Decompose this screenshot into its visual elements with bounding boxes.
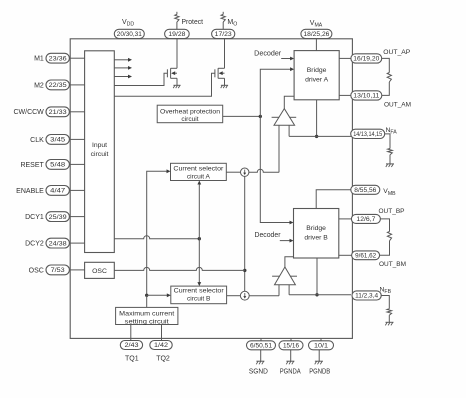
- wire decay net to current selector B: [198, 239, 200, 285]
- current selector circuit B block: [171, 286, 227, 304]
- wire PGNDB pin stub: [320, 338, 322, 340]
- junction NFB node: [315, 293, 318, 296]
- svg-text:8/55,56: 8/55,56: [354, 187, 377, 194]
- svg-text:21/33: 21/33: [49, 109, 68, 116]
- svg-text:DCY1: DCY1: [25, 214, 44, 221]
- svg-text:OSC: OSC: [29, 267, 44, 274]
- svg-text:CLK: CLK: [30, 137, 44, 144]
- wire comparator B feedback input from NFB net: [288, 285, 290, 295]
- svg-text:2/43: 2/43: [125, 342, 140, 349]
- ground PGNDA: [286, 361, 294, 364]
- wire bridge driver B to NFB node: [316, 258, 318, 295]
- decoder A arrow into bridge driver A: [281, 58, 290, 60]
- motor coil load between OUT_BP and OUT_BM: [380, 219, 392, 255]
- pin M1 (23/36): [46, 53, 69, 63]
- svg-text:driver B: driver B: [304, 234, 328, 241]
- svg-text:OUT_BP: OUT_BP: [379, 208, 405, 215]
- wire decay net to current selector A: [198, 183, 200, 239]
- svg-text:setting circuit: setting circuit: [125, 318, 169, 325]
- svg-text:SGND: SGND: [249, 368, 268, 375]
- wire OSC block output with crossovers: [114, 267, 245, 270]
- wire PGNDA pin stub: [290, 338, 292, 340]
- current selector circuit A block: [171, 163, 227, 180]
- svg-text:Current selector: Current selector: [173, 166, 224, 173]
- wire OSC pin to input circuit: [69, 269, 84, 271]
- svg-text:RESET: RESET: [20, 162, 44, 169]
- input circuit block: [85, 51, 115, 253]
- svg-text:Maximum current: Maximum current: [119, 310, 174, 317]
- svg-text:PGNDB: PGNDB: [309, 368, 330, 375]
- pin VMB (8/55,56): [351, 185, 380, 194]
- wire M1 pin to input circuit: [69, 57, 84, 59]
- svg-text:7/53: 7/53: [51, 267, 66, 274]
- svg-text:17/23: 17/23: [215, 31, 233, 38]
- svg-text:M2: M2: [34, 82, 44, 89]
- wire protect net to bridge driver B: [260, 116, 290, 222]
- wire M2 pin to input circuit: [69, 84, 84, 86]
- resistor RNFB on NFB pin: [381, 296, 391, 323]
- svg-text:OUT_AM: OUT_AM: [384, 101, 411, 108]
- svg-text:circuit: circuit: [91, 151, 109, 158]
- wire VMA pin to bridge driver A: [315, 39, 317, 51]
- junction torque net: [145, 294, 148, 297]
- svg-text:CW/CCW: CW/CCW: [13, 109, 44, 116]
- svg-text:16/19,20: 16/19,20: [353, 56, 380, 63]
- pin TQ1 (2/43): [120, 341, 142, 350]
- wire bridge driver A to OUT_AM: [339, 94, 352, 96]
- input circuit output arrows: [114, 58, 132, 79]
- pin OSC (7/53): [46, 265, 69, 275]
- wire gate of Q1 from input circuit: [114, 73, 167, 85]
- svg-text:22/35: 22/35: [49, 82, 68, 89]
- svg-text:DCY2: DCY2: [25, 241, 44, 248]
- pin VMA (18/25,26): [301, 29, 332, 38]
- svg-text:TQ2: TQ2: [156, 356, 170, 363]
- svg-text:driver A: driver A: [305, 77, 329, 84]
- svg-text:24/38: 24/38: [49, 240, 68, 247]
- wire gate of Q2 from input circuit: [114, 73, 215, 96]
- svg-text:Bridge: Bridge: [307, 67, 327, 74]
- resistor RNFA on NFA pin: [385, 134, 393, 164]
- wire torque net to current selector B: [147, 294, 168, 296]
- svg-text:20/30,31: 20/30,31: [117, 31, 143, 38]
- wire comparator B output to bridge driver B: [285, 257, 294, 267]
- svg-text:11/2,3,4: 11/2,3,4: [355, 293, 379, 300]
- bridge driver A block: [294, 51, 339, 100]
- svg-text:10/1: 10/1: [314, 343, 329, 350]
- svg-text:23/36: 23/36: [49, 55, 68, 62]
- ground SGND: [256, 361, 264, 364]
- pin NFA (14/13,14,15): [351, 129, 385, 138]
- svg-text:Overheat protection: Overheat protection: [160, 109, 220, 116]
- pin OUT_AP (16/19,20): [351, 54, 382, 63]
- pin DCY2 (24/38): [46, 238, 69, 248]
- svg-text:Bridge: Bridge: [306, 225, 326, 232]
- ground for Q1 source: [173, 85, 180, 88]
- pin CW/CCW (21/33): [46, 107, 69, 117]
- svg-text:9/61,62: 9/61,62: [355, 253, 377, 260]
- pin TQ2 (1/42): [150, 341, 172, 350]
- svg-text:15/16: 15/16: [283, 343, 300, 350]
- svg-text:circuit A: circuit A: [187, 173, 211, 180]
- wire DCY1 pin to input circuit: [69, 216, 84, 218]
- pin NFB (11/2,3,4): [352, 291, 381, 300]
- transistor Q1: [167, 39, 177, 85]
- wire bridge driver B to OUT_BM: [339, 254, 353, 256]
- pin SGND (6/50,51): [247, 341, 276, 350]
- motor coil load between OUT_AP and OUT_AM: [382, 58, 392, 95]
- pin CLK (3/45): [46, 135, 69, 145]
- wire comparator A output to bridge driver A: [284, 96, 294, 109]
- wire protect net to bridge driver A: [260, 69, 290, 116]
- wire maximum current setting circuit to torque net: [146, 295, 148, 307]
- svg-text:OUT_AP: OUT_AP: [383, 49, 410, 56]
- wire NFB net to NFB pin: [289, 294, 351, 296]
- wire current selector A to summing node A: [226, 171, 240, 173]
- pin OUT_BP (12/6,7): [351, 214, 380, 223]
- svg-text:Current selector: Current selector: [174, 288, 225, 295]
- wire bridge driver A to NFA node: [316, 100, 318, 137]
- op-amp comparator A: [272, 109, 297, 126]
- pin OUT_BM (9/61,62): [352, 251, 380, 260]
- ground for Q2 source: [221, 85, 228, 88]
- bridge driver B block: [294, 209, 339, 259]
- wire CW/CCW pin to input circuit: [69, 111, 84, 113]
- svg-text:TQ1: TQ1: [125, 356, 139, 363]
- wire decay setting from input circuit with crossover: [114, 236, 199, 239]
- pin ENABLE (4/47): [46, 186, 69, 196]
- svg-text:13/10,11: 13/10,11: [353, 93, 380, 100]
- pin PGNDB (10/1): [309, 341, 334, 350]
- svg-text:OUT_BM: OUT_BM: [379, 261, 406, 268]
- ground for RNFB: [385, 322, 393, 325]
- svg-text:circuit B: circuit B: [187, 295, 211, 302]
- svg-text:12/6,7: 12/6,7: [356, 216, 376, 223]
- wire current selector B to summing node B: [227, 295, 241, 297]
- wire comparator B input from summing node B: [278, 285, 280, 296]
- wire CLK pin to input circuit: [69, 138, 84, 140]
- summing node B: [240, 291, 249, 300]
- junction NFA node: [315, 135, 318, 138]
- ground PGNDB: [315, 361, 323, 364]
- svg-text:OSC: OSC: [92, 268, 107, 275]
- wire overheat output to protect net: [223, 115, 261, 117]
- ground for RNFA: [386, 164, 394, 167]
- svg-text:6/50,51: 6/50,51: [250, 343, 273, 350]
- pin MO (17/23): [212, 29, 235, 38]
- junction decay net: [198, 237, 201, 240]
- wire DCY2 pin to input circuit: [69, 242, 84, 244]
- wire TQ1 pin to maximum current setting circuit: [130, 325, 132, 341]
- junction overheat/protect net: [259, 115, 262, 118]
- overheat protection circuit block: [157, 105, 223, 123]
- pin OUT_AM (13/10,11): [351, 91, 382, 100]
- IC block outline: [70, 39, 352, 339]
- svg-text:1/42: 1/42: [154, 342, 169, 349]
- decoder B arrow into bridge driver B: [280, 240, 290, 242]
- resistor pull-up on Protect pin: [175, 12, 179, 30]
- maximum current setting circuit block: [116, 307, 178, 325]
- resistor pull-up on MO pin: [221, 12, 225, 30]
- transistor Q2: [215, 39, 225, 85]
- wire summing node A to comparator A input: [249, 169, 279, 172]
- pin DCY1 (25/39): [46, 212, 69, 222]
- junction OSC net: [243, 269, 246, 272]
- svg-text:PGNDA: PGNDA: [280, 368, 301, 375]
- wire ENABLE pin to input circuit: [69, 189, 84, 191]
- svg-text:M1: M1: [34, 56, 44, 63]
- pin RESET (5/48): [46, 160, 69, 170]
- svg-text:Input: Input: [92, 142, 107, 149]
- pin PGNDA (15/16): [279, 341, 303, 350]
- wire SGND pin stub: [260, 338, 262, 340]
- wire VMB pin to bridge driver B: [316, 190, 352, 209]
- wire PGNDB to ground: [318, 350, 320, 361]
- wire summing node A to summing node B: [244, 176, 246, 291]
- wire TQ2 pin to maximum current setting circuit: [161, 325, 163, 341]
- summing node A: [241, 168, 249, 176]
- svg-text:Protect: Protect: [182, 19, 204, 26]
- svg-text:19/28: 19/28: [168, 31, 186, 38]
- wire PGNDA to ground: [290, 350, 292, 361]
- svg-text:Decoder: Decoder: [254, 50, 282, 57]
- wire SGND to ground: [260, 350, 262, 361]
- pin VDD (20/30,31): [114, 29, 144, 38]
- svg-text:14/13,14,15: 14/13,14,15: [353, 131, 382, 138]
- svg-text:4/47: 4/47: [50, 188, 66, 195]
- wire NFA net to NFA pin: [289, 135, 351, 137]
- wire comparator A input from summing node A: [278, 125, 280, 172]
- wire bridge driver B to OUT_BP: [339, 218, 353, 220]
- svg-text:3/45: 3/45: [50, 137, 66, 144]
- pin Protect (19/28): [165, 29, 190, 38]
- svg-text:ENABLE: ENABLE: [16, 188, 44, 195]
- svg-text:25/39: 25/39: [49, 214, 68, 221]
- wire RESET pin to input circuit: [69, 163, 84, 165]
- wire torque net to current selector A: [147, 171, 167, 295]
- wire comparator A feedback input from NFA net: [288, 125, 290, 136]
- OSC block: [85, 262, 115, 278]
- pin M2 (22/35): [46, 80, 69, 90]
- op-amp comparator B: [272, 267, 297, 285]
- svg-text:Decoder: Decoder: [255, 232, 282, 239]
- svg-text:18/25,26: 18/25,26: [303, 31, 330, 38]
- wire summing node B to comparator B input: [249, 295, 279, 297]
- svg-text:circuit: circuit: [181, 116, 198, 123]
- wire bridge driver A to OUT_AP: [339, 57, 352, 59]
- svg-text:5/48: 5/48: [50, 162, 66, 169]
